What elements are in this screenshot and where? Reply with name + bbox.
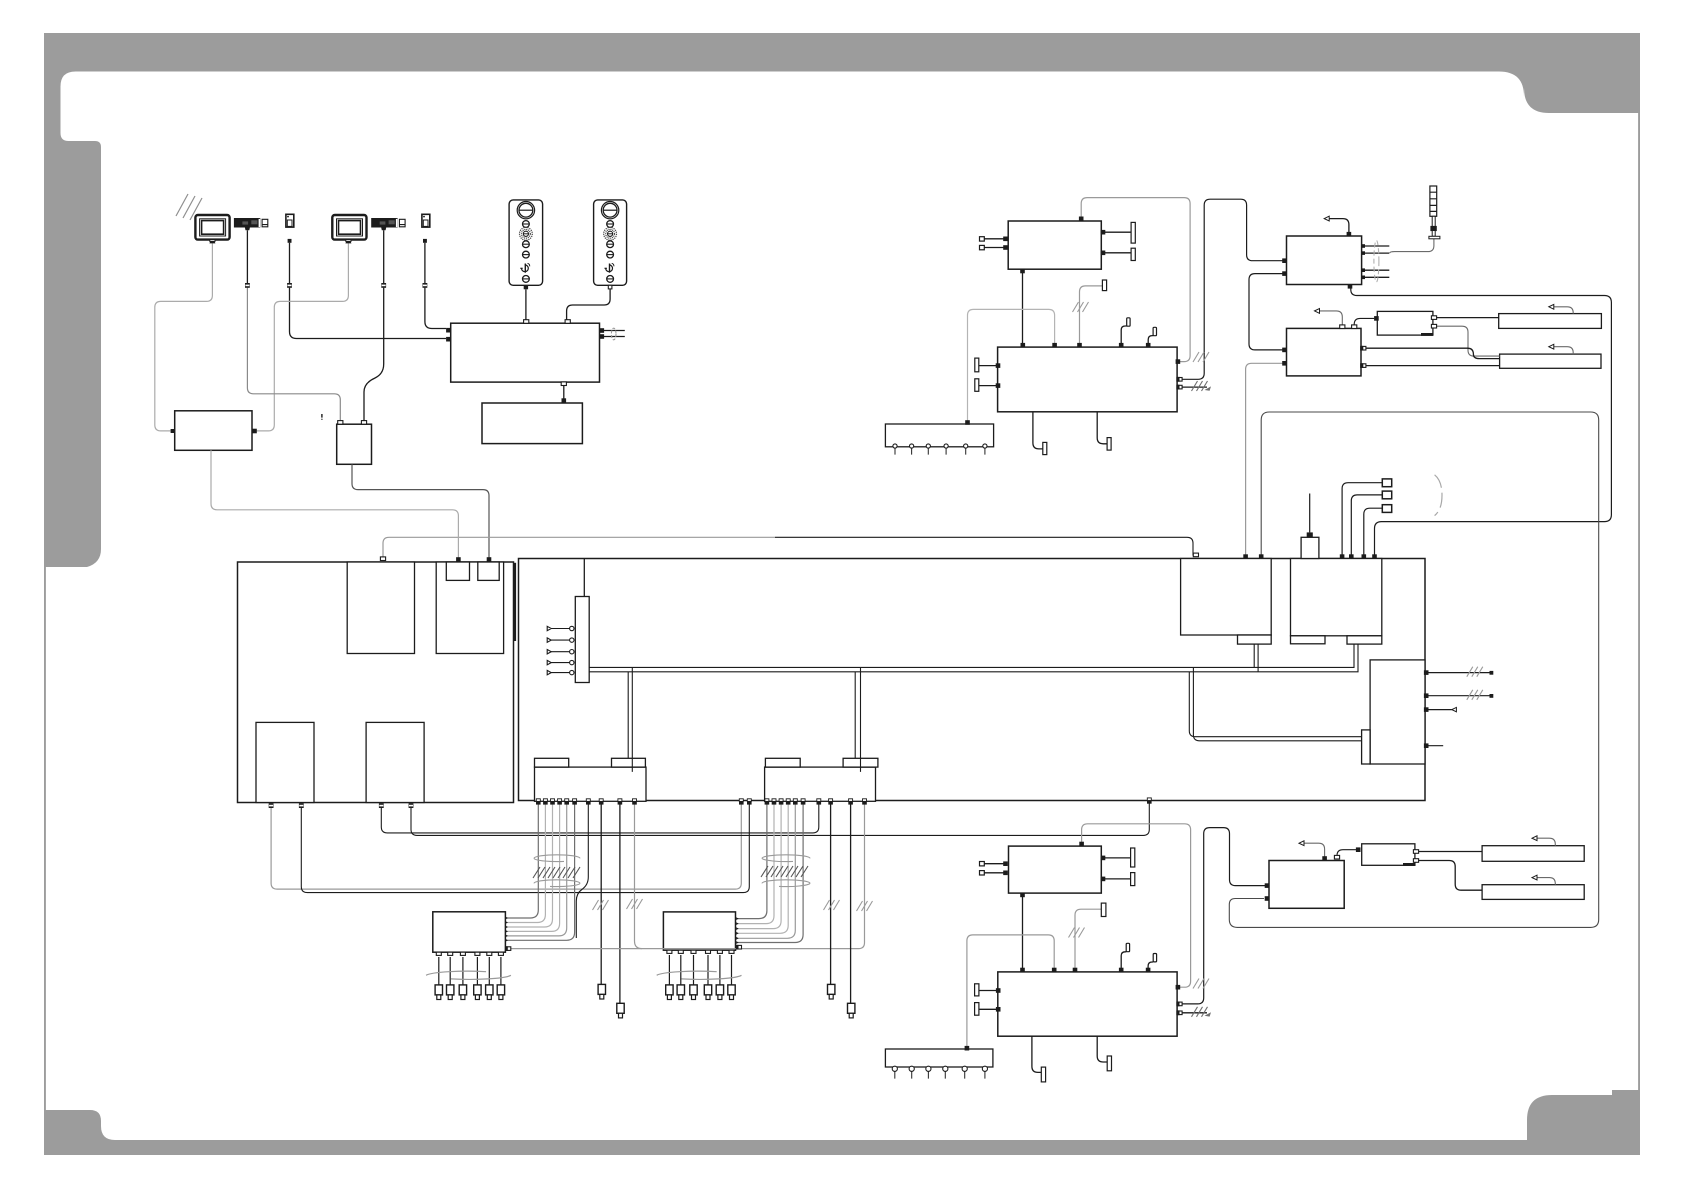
- box C right pins: [600, 328, 605, 333]
- terminal strip H2 top pin: [965, 1046, 970, 1051]
- wire beacon to box I: [1390, 239, 1434, 253]
- box K2 right pin caps: [1413, 850, 1418, 854]
- filter K2: [1362, 844, 1415, 866]
- wire CB2 cable to plug3: [830, 801, 832, 984]
- frame: top-right gray corner block: [1499, 72, 1640, 114]
- box G2 right pin ground cap: [1177, 1010, 1182, 1015]
- wire box G pin4 plug: [1121, 326, 1127, 347]
- monitor MON1: [195, 215, 229, 243]
- bar terminal G left 2: [975, 379, 979, 392]
- wire door station DS1 to box C: [525, 289, 527, 320]
- box G2 right pin W2m double cap: [1177, 1002, 1182, 1007]
- end square IB3 wire 2: [1490, 694, 1494, 698]
- frame: bottom gray bar: [44, 1140, 1640, 1155]
- lamp bar L: [1499, 314, 1602, 329]
- wire E2 top to G2 (W1m): [1082, 824, 1191, 987]
- monitor MON2: [332, 215, 366, 243]
- wire E2 bottom to G2: [1022, 893, 1024, 972]
- wire box I antenna: [1329, 219, 1349, 234]
- wire box G right ground: [1179, 386, 1207, 388]
- wire G2 pin5 plug: [1148, 962, 1153, 972]
- DIST1 bottom pins and wires: [439, 957, 501, 985]
- wire box G terminal T: [1080, 286, 1103, 347]
- CB1 bundle hatch band: [533, 867, 580, 878]
- BIG1 sub connector pins: [456, 557, 461, 562]
- box J2 left pins: [1265, 883, 1270, 888]
- white square terminal WS1: [1382, 479, 1391, 487]
- wire G2 bottom terminals: [1032, 1036, 1107, 1072]
- power unit D: [482, 403, 582, 444]
- bar L antenna arrowhead: [1549, 304, 1554, 309]
- junction box B: [337, 424, 372, 464]
- wire E2 right outputs: [1101, 858, 1130, 879]
- amplifier J (top right): [1287, 328, 1362, 376]
- connector plug on cable 601: [598, 984, 605, 999]
- terminal T bar: [1102, 280, 1106, 291]
- CB2 bundle coil lower: [762, 880, 810, 887]
- wire loop P2 BIG2 to J2: [1229, 412, 1598, 927]
- frame: right thin border line: [1638, 113, 1640, 1095]
- wire box G bottom terminals: [1033, 412, 1107, 449]
- frame: top gray bar: [44, 33, 1640, 72]
- frame: top-left gray column: [44, 72, 101, 568]
- connector node switch2 wire: [423, 283, 428, 288]
- box I bottom pins: [1348, 284, 1353, 289]
- bar terminal E right 1: [1131, 222, 1135, 243]
- box G right pin ground cap: [1177, 385, 1182, 390]
- inner module IB1 of BIG2: [1181, 559, 1272, 636]
- wire CB1 pin10 gray merge: [635, 801, 643, 948]
- cable wrap ellipse under DIST2: [657, 971, 742, 979]
- terminal strip H1 top pin: [965, 420, 970, 425]
- cable bundle arc: [1435, 475, 1442, 516]
- wire comb stem: [583, 559, 585, 597]
- wire bar L2 antenna: [1537, 838, 1555, 846]
- inner module L3 of BIG1: [256, 722, 314, 802]
- control unit A (top-left relay box): [175, 411, 252, 451]
- wire bus pair inside BIG2: [589, 644, 1358, 672]
- ground symbol at box G2 right: [1192, 1007, 1212, 1017]
- main board BIG2: [519, 559, 1426, 801]
- wire L3 to BIG2 bottom left pair: [271, 801, 741, 889]
- CB2 bundle coil upper: [762, 855, 810, 862]
- wire G2 left inputs: [979, 991, 998, 1010]
- sub connector L2a: [446, 562, 469, 580]
- hatch on gray wire 634: [627, 899, 643, 909]
- wire box J antenna: [1320, 311, 1343, 325]
- amplifier J2 (lower right): [1269, 861, 1344, 909]
- comb CN1 pins with sockets: [547, 626, 574, 675]
- wire box J pin2 to box K: [1354, 318, 1374, 325]
- DIST1 right diamond pins: [505, 917, 508, 942]
- connector block CB2 under BIG2: [765, 767, 876, 801]
- white square terminal WS3: [1382, 505, 1391, 513]
- bar terminal E right 2: [1131, 248, 1135, 260]
- wire CB1 cable to plug2: [619, 801, 621, 1003]
- cable wrap ellipse under DIST1: [426, 971, 511, 979]
- control unit G (upper right): [998, 347, 1178, 412]
- wire switch1 to box C lower left pin: [290, 243, 447, 339]
- relay unit E (upper right): [1008, 221, 1101, 269]
- box I right pins: [1362, 244, 1365, 279]
- filter K: [1377, 311, 1433, 335]
- wire switch2 to box C upper left pin: [425, 243, 446, 329]
- wire bus drops to CB1: [628, 667, 632, 772]
- box E left input squares: [980, 237, 985, 241]
- box G2 right pin W1m: [1176, 985, 1181, 990]
- H2 terminal circles: [892, 1066, 987, 1078]
- inner module L1 of BIG1: [347, 562, 414, 654]
- box J right pins: [1361, 346, 1366, 351]
- box G top pins: [1021, 343, 1026, 348]
- DIST2 right diamond pins: [736, 917, 739, 944]
- box B top pin caps: [338, 421, 343, 425]
- BIG1 bottom pins: [269, 803, 274, 808]
- box E2 bottom pin: [1020, 893, 1025, 898]
- CB1 bottom pin caps: [536, 799, 637, 805]
- wire box G left inputs: [979, 366, 998, 386]
- inner module L2 of BIG1: [436, 562, 503, 654]
- CB1 right tab: [612, 758, 646, 767]
- box E2 left pins: [1003, 861, 1008, 866]
- end triangle IB3 wire 3: [1452, 707, 1457, 711]
- box A right nib: [252, 429, 257, 434]
- terminal strip H2: [885, 1049, 993, 1067]
- wire box K to bar M: [1433, 326, 1500, 356]
- wire G2 pin2 to H2: [967, 935, 1054, 1048]
- H1 terminal circles: [893, 444, 987, 455]
- IB3 right pin 1: [1424, 670, 1429, 675]
- box G right pin W1: [1176, 359, 1181, 364]
- lamp bar M2: [1482, 885, 1584, 900]
- lamp bar L2: [1482, 846, 1584, 862]
- wire monitor1 to box A: [155, 243, 213, 431]
- IB3 right pin 2: [1424, 693, 1429, 698]
- wire CB1 cable to plug1: [600, 801, 602, 984]
- connector node switch1 wire: [287, 283, 292, 288]
- wire CB2 cable to plug4: [850, 801, 852, 1003]
- wire camera1 to box B: [247, 288, 340, 422]
- hatch on gray wire 864: [857, 901, 873, 911]
- wire box K to bar L: [1433, 317, 1499, 319]
- coil on box C outputs: [611, 328, 616, 340]
- wire E2 left inputs: [984, 864, 1004, 873]
- hatch mark top-left: [176, 194, 202, 220]
- box E bottom pin: [1020, 269, 1025, 274]
- connector block CB1 under BIG2: [535, 767, 647, 801]
- wire box C right outputs: [604, 331, 625, 337]
- connector plug on cable 830: [828, 984, 835, 999]
- wire bar M antenna: [1554, 347, 1573, 354]
- DIST1 right-bottom white pin: [505, 946, 510, 951]
- connector plugs under DIST1: [435, 985, 442, 1000]
- connector node camera1 wire: [245, 283, 250, 288]
- box E right pins: [1101, 230, 1106, 235]
- CB2 left tab: [765, 758, 800, 767]
- wire long link BIG1 to BIG2 top (dark half): [775, 537, 1193, 555]
- white square terminal WS2: [1382, 491, 1391, 499]
- wire CB1 pin7: [576, 801, 588, 938]
- bar terminal G left 1: [975, 358, 979, 372]
- switch SW2: [422, 214, 430, 242]
- wire bus2 pair to IB3 tab: [1189, 667, 1361, 740]
- box E2 left input squares: [980, 862, 985, 866]
- hatch on IB3 wire 1: [1467, 667, 1483, 677]
- wire W2 box G to box I: [1179, 199, 1284, 379]
- wire G2 right ground: [1179, 1012, 1207, 1014]
- terminal T2 bar: [1101, 903, 1106, 916]
- wire camera1 drop: [246, 230, 248, 283]
- wire box A down to BIG1 connector: [211, 450, 458, 558]
- wire box E to box G vertical: [1022, 269, 1024, 347]
- wire J2 antenna: [1304, 843, 1325, 857]
- main board BIG1: [238, 562, 514, 803]
- IB1 bottom notch: [1238, 635, 1272, 644]
- box E2 right pins: [1101, 856, 1106, 861]
- CB2 right tab: [843, 758, 878, 767]
- wire J2 to K2: [1337, 850, 1356, 858]
- beacon tower: [1429, 186, 1440, 239]
- wire bus drops to CB2: [855, 667, 860, 772]
- box G2 left pins: [996, 988, 1001, 993]
- camera CAM1: [234, 218, 268, 230]
- switch SW1: [286, 214, 294, 242]
- BIG1 top pin cap: [380, 557, 385, 561]
- wire H1 to box G via bus: [968, 309, 1055, 421]
- amplifier I (top right): [1287, 236, 1362, 285]
- bar terminal G bottom 2: [1107, 438, 1111, 451]
- CB1 bundle coil lower: [534, 880, 580, 887]
- connector plug on cable 620: [617, 1003, 624, 1018]
- exclamation mark near box B: [321, 414, 323, 420]
- wire W3 box I to box J: [1249, 274, 1287, 350]
- wire path P1 box I to BIG2: [1351, 287, 1612, 556]
- DIST2 bottom pins and wires: [669, 955, 731, 985]
- wire K2 to bar L2: [1415, 851, 1482, 853]
- plug G2 pin4: [1126, 943, 1129, 951]
- connector plug on cable 850: [848, 1003, 855, 1018]
- CB1 left tab: [535, 758, 569, 767]
- frame: bottom-left gray block: [44, 1110, 115, 1140]
- wire camera2 drop: [364, 230, 384, 421]
- inner module IB2 of BIG2: [1291, 559, 1382, 636]
- wire W4 box J to BIG2: [1246, 363, 1287, 556]
- wire box I right outputs: [1362, 246, 1390, 277]
- bar terminal G bottom 1: [1043, 442, 1047, 454]
- wire box E left inputs: [984, 239, 1004, 248]
- sub connector L2b: [478, 562, 499, 580]
- IB2 left notch: [1291, 636, 1326, 644]
- bar terminal G2 left 2: [975, 1003, 979, 1016]
- relay unit E2 (lower right): [1009, 846, 1102, 893]
- wire IB3 outputs: [1425, 673, 1490, 746]
- box I left pins: [1282, 258, 1287, 263]
- lamp bar M: [1500, 354, 1601, 368]
- hatch on W2 wire: [1193, 352, 1209, 362]
- plug G2 pin5: [1153, 954, 1156, 962]
- wire K2 to bar M2: [1415, 861, 1482, 891]
- interface unit C (door station controller): [451, 323, 600, 382]
- box C bottom pin cap: [561, 382, 566, 386]
- bar M2 antenna arrowhead: [1532, 875, 1537, 880]
- wire bar L antenna: [1554, 307, 1573, 314]
- node on C-D wire: [562, 398, 567, 403]
- inner module L4 of BIG1: [366, 722, 424, 802]
- wire box J to bar M upper: [1361, 348, 1500, 358]
- box J top pins: [1340, 325, 1345, 329]
- hatch on T wire: [1073, 302, 1089, 312]
- wire door station DS2 to box C: [567, 289, 611, 320]
- IB2 right notch: [1347, 636, 1382, 644]
- box A left nib: [171, 429, 175, 433]
- K2 bottom-right notch: [1403, 863, 1415, 866]
- G_BOXES2: [155, 198, 1612, 1073]
- IB3 right pin 3: [1424, 707, 1429, 712]
- hatch on W2m wire: [1193, 979, 1209, 989]
- frame: left thin border line: [44, 567, 46, 1140]
- box K left pin: [1374, 316, 1379, 321]
- bar terminal G2 bottom 1: [1041, 1067, 1045, 1082]
- control unit G2 (lower right): [998, 972, 1177, 1036]
- box J antenna arrowhead: [1315, 309, 1320, 314]
- IB3 left tab: [1362, 730, 1371, 764]
- wire box B down to BIG1 connector: [352, 464, 489, 558]
- box K right pin caps: [1431, 316, 1436, 320]
- wire bar M2 antenna: [1537, 878, 1555, 885]
- CB1 bundle coil upper: [534, 855, 580, 862]
- wire DIST2 bundle to CB2: [737, 801, 767, 918]
- bar L2 antenna arrowhead: [1532, 836, 1537, 841]
- door station DS1: [509, 200, 542, 289]
- inner module IB3 of BIG2 (right): [1370, 660, 1425, 764]
- terminal strip H1: [885, 424, 993, 447]
- wire box C to box D: [563, 385, 565, 403]
- box C top pin caps: [524, 320, 529, 324]
- connector plugs under DIST2: [666, 985, 673, 1000]
- box K2 left pin: [1356, 847, 1361, 852]
- box J left pins: [1282, 348, 1287, 353]
- box J2 top pins: [1322, 856, 1327, 861]
- wire DIST1 gray to CB2: [511, 801, 865, 948]
- wire box E right outputs: [1101, 232, 1131, 253]
- camera CAM2: [371, 218, 405, 230]
- wire W2m G2 to J2: [1179, 828, 1267, 1004]
- wire G2 pin4 plug: [1121, 952, 1126, 972]
- wire box J to bar M lower: [1361, 365, 1500, 367]
- connector node camera2 wire: [381, 283, 386, 288]
- box E top pin: [1079, 217, 1084, 222]
- frame: bottom-right gray block: [1527, 1090, 1640, 1140]
- door station DS2: [594, 200, 627, 289]
- wire connector P1 stub: [1309, 494, 1311, 533]
- box G right pin W2 double cap: [1177, 377, 1182, 382]
- ground symbol at box G right: [1192, 381, 1212, 391]
- box J2 antenna arrowhead: [1299, 841, 1304, 846]
- hatch on T2 wire: [1069, 928, 1085, 938]
- distributor DIST2: [663, 912, 735, 950]
- box G2 top pins: [1020, 968, 1025, 973]
- connector box P1 on BIG2 top edge: [1301, 537, 1319, 558]
- box G left pins: [996, 363, 1001, 368]
- box I antenna arrowhead: [1324, 216, 1329, 221]
- wire W1 box E to box G: [1081, 198, 1190, 362]
- K bottom-right notch: [1421, 333, 1433, 336]
- bar terminal E2 right 1: [1131, 848, 1135, 867]
- hatch on cable 830: [824, 900, 840, 910]
- wire DIST1 bundle to CB1: [507, 801, 539, 918]
- wire monitor2 to box A: [257, 243, 349, 431]
- IB3 right pin 4: [1424, 743, 1429, 748]
- wire box G pin5 plug: [1148, 336, 1153, 348]
- hatch on IB3 wire 2: [1467, 690, 1483, 700]
- end square IB3 wire 1: [1490, 671, 1494, 675]
- CB2 bundle hatch band: [761, 866, 808, 877]
- box C left pins: [446, 328, 451, 333]
- bar terminal G2 bottom 2: [1107, 1056, 1111, 1071]
- wire L4 to CB2 pair: [381, 801, 819, 833]
- bar terminal G2 left 1: [975, 984, 979, 996]
- box E left pins: [1003, 237, 1008, 242]
- bar M antenna arrowhead: [1549, 344, 1554, 349]
- wire long link BIG1 to BIG2 top (gray half): [383, 537, 775, 559]
- bar terminal E2 right 2: [1131, 873, 1135, 886]
- box E2 top pin: [1079, 842, 1084, 847]
- connector P1 top pin: [1307, 532, 1313, 537]
- box I top pin: [1347, 232, 1352, 237]
- wire G2 terminal T2: [1075, 909, 1101, 972]
- distributor DIST1: [433, 912, 506, 952]
- DIST2 right-bottom white pin: [736, 945, 741, 950]
- coil on box I outputs: [1374, 240, 1379, 282]
- connector comb CN1 inside BIG2: [575, 597, 589, 683]
- hatch on cable 601: [593, 900, 609, 910]
- divider bar between BIG1 and BIG2: [514, 563, 516, 641]
- wire white square terminals to BIG2: [1342, 483, 1382, 556]
- plug G pin5: [1153, 327, 1156, 335]
- CB2 and BIG2 bottom pin caps: [739, 798, 1152, 805]
- BIG2 top pins: [1193, 553, 1198, 557]
- plug G pin4: [1127, 318, 1130, 326]
